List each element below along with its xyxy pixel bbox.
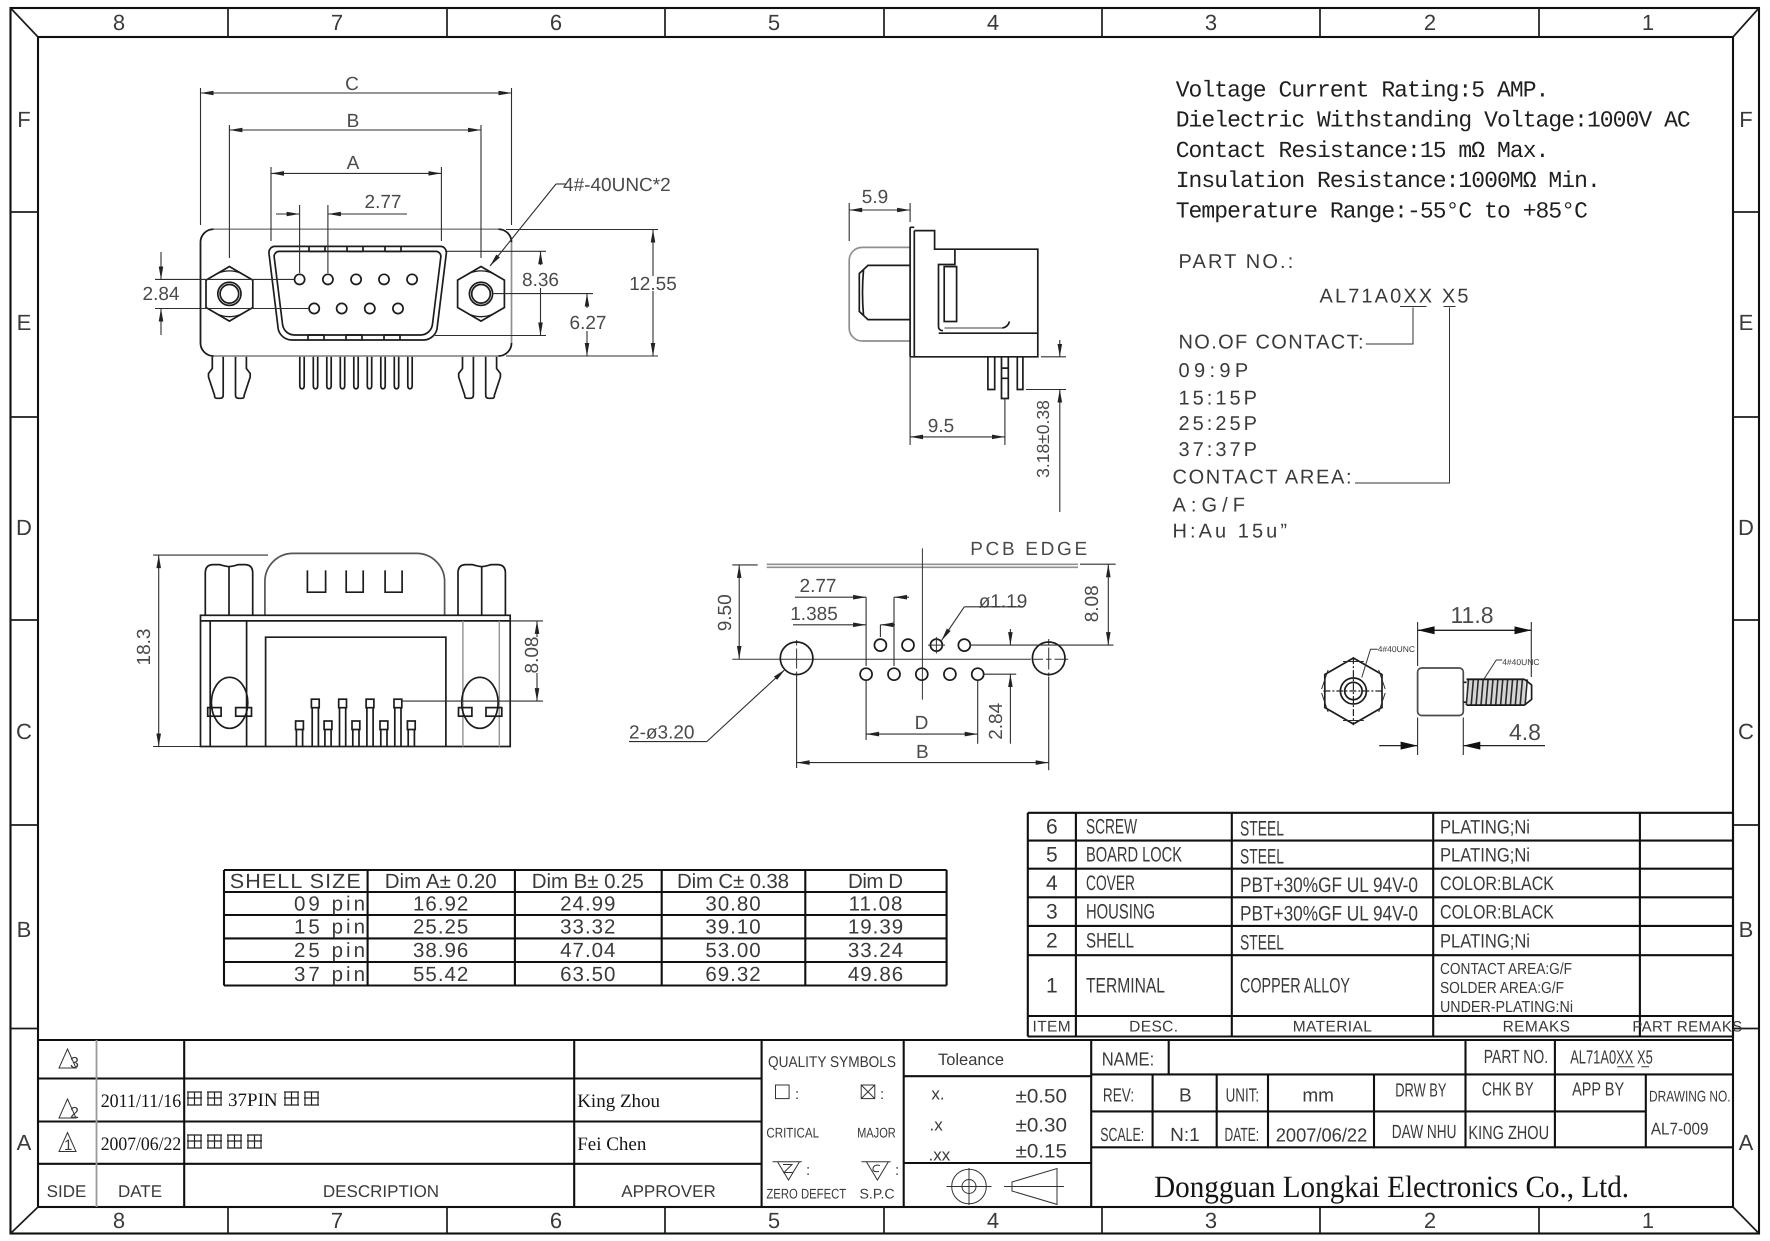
top view shell notches (307, 570, 402, 592)
dimension 2.77 (front view) (276, 192, 407, 273)
revision row 2011/11/16 (101, 1090, 661, 1112)
label 4#40UNC (screw) (1484, 657, 1539, 679)
pcb pin holes top row (874, 637, 970, 654)
svg-text:33.32: 33.32 (560, 916, 616, 939)
svg-text:.xx: .xx (929, 1146, 951, 1165)
label o1.19 with leader (942, 592, 1028, 641)
svg-text:PLATING;Ni: PLATING;Ni (1440, 845, 1530, 867)
svg-text::: : (895, 1162, 899, 1179)
svg-text:4: 4 (987, 1208, 999, 1233)
pcb mounting holes 2-o3.20 (780, 642, 1065, 675)
svg-text:63.50: 63.50 (560, 963, 616, 986)
dimension 12.55 (front view) (506, 230, 677, 357)
svg-text:2: 2 (70, 1105, 79, 1122)
svg-text:15:15P: 15:15P (1179, 388, 1258, 410)
svg-text:F: F (17, 107, 30, 132)
svg-text:±0.50: ±0.50 (1016, 1085, 1068, 1107)
side view D-shell (mating end) (849, 247, 910, 341)
svg-text:1: 1 (1642, 1208, 1654, 1233)
svg-text:SHELL SIZE: SHELL SIZE (230, 870, 362, 893)
svg-text:7: 7 (331, 10, 343, 35)
svg-text:ZERO DEFECT: ZERO DEFECT (766, 1186, 846, 1202)
svg-text:CONTACT AREA:G/F: CONTACT AREA:G/F (1440, 961, 1572, 978)
svg-text:2007/06/22: 2007/06/22 (1276, 1126, 1368, 1147)
top view hex nut left (205, 565, 252, 616)
svg-text:5.9: 5.9 (862, 187, 888, 208)
svg-text:DESC.: DESC. (1129, 1019, 1178, 1036)
svg-text:15 pin: 15 pin (294, 916, 366, 939)
svg-text:C: C (1738, 719, 1754, 744)
svg-text:MAJOR: MAJOR (857, 1125, 896, 1141)
svg-text:6.27: 6.27 (570, 313, 607, 334)
svg-text:AL71A0XX X5: AL71A0XX X5 (1570, 1048, 1653, 1069)
svg-text:2: 2 (1424, 10, 1436, 35)
svg-text:Dim B± 0.25: Dim B± 0.25 (532, 870, 645, 893)
svg-text:mm: mm (1302, 1086, 1334, 1107)
svg-text:C: C (16, 719, 32, 744)
svg-text:NAME:: NAME: (1102, 1050, 1155, 1071)
svg-text:.x: .x (930, 1116, 944, 1135)
svg-text:D: D (16, 515, 32, 540)
svg-text:CRITICAL: CRITICAL (766, 1125, 819, 1141)
svg-text:UNDER-PLATING:Ni: UNDER-PLATING:Ni (1440, 999, 1573, 1016)
svg-text:Contact Resistance:15 mΩ Max.: Contact Resistance:15 mΩ Max. (1176, 138, 1549, 164)
svg-text:53.00: 53.00 (705, 939, 761, 962)
svg-text:5: 5 (768, 10, 780, 35)
top view board lock slots (210, 621, 499, 747)
part number legend (1173, 251, 1469, 543)
top view pins far row (311, 699, 401, 746)
svg-text:8: 8 (113, 1208, 125, 1233)
dimension 2.84 (pcb) (984, 629, 1017, 744)
svg-text:D: D (915, 713, 929, 734)
spec text (1176, 78, 1690, 225)
svg-text:DAW NHU: DAW NHU (1392, 1122, 1457, 1143)
svg-text:S.P.C: S.P.C (860, 1186, 895, 1202)
svg-text:38.96: 38.96 (413, 939, 469, 962)
dimension 3.18±0.38 (side view) (1026, 340, 1066, 512)
side view flange plate (910, 227, 914, 356)
svg-text:37 pin: 37 pin (294, 963, 366, 986)
screw threads (1466, 679, 1531, 705)
svg-text:REV:: REV: (1103, 1086, 1134, 1107)
label 2-o3.20 with leader (629, 670, 785, 744)
bom table grid (1028, 813, 1733, 1037)
svg-text:CHK BY: CHK BY (1482, 1080, 1534, 1101)
pcb centerlines (732, 548, 1068, 699)
svg-text:PBT+30%GF UL 94V-0: PBT+30%GF UL 94V-0 (1240, 874, 1418, 897)
svg-text:A: A (17, 1130, 32, 1155)
svg-text:SCREW: SCREW (1086, 816, 1137, 839)
svg-text:25 pin: 25 pin (294, 939, 366, 962)
svg-text:A: A (347, 153, 360, 174)
svg-text:Dongguan Longkai Electronics C: Dongguan Longkai Electronics Co., Ltd. (1154, 1169, 1629, 1204)
svg-text:Toleance: Toleance (938, 1051, 1004, 1069)
front view pins bottom row (309, 303, 403, 313)
svg-text:Insulation Resistance:1000MΩ: Insulation Resistance:1000MΩ Min. (1176, 168, 1600, 194)
svg-text:6: 6 (1046, 816, 1058, 839)
svg-text:55.42: 55.42 (413, 963, 469, 986)
svg-text:2007/06/22: 2007/06/22 (101, 1134, 182, 1155)
svg-text:PLATING;Ni: PLATING;Ni (1440, 817, 1530, 839)
svg-text:4.8: 4.8 (1509, 719, 1541, 745)
svg-text:11.8: 11.8 (1450, 602, 1493, 628)
revision triangle 1 (59, 1133, 76, 1155)
svg-text:DATE: DATE (118, 1182, 162, 1201)
tolerance panel (904, 1051, 1091, 1165)
svg-text:4: 4 (987, 10, 999, 35)
svg-text:N:1: N:1 (1170, 1125, 1200, 1146)
pcb pin holes bottom row (860, 668, 984, 680)
dimension 1.385 (pcb) (790, 604, 895, 637)
svg-text:49.86: 49.86 (848, 963, 904, 986)
svg-text:8.08: 8.08 (522, 637, 543, 674)
front view solder pins (300, 357, 412, 389)
revision row 2007/06/22 (101, 1134, 647, 1155)
svg-text:4#-40UNC*2: 4#-40UNC*2 (563, 175, 671, 196)
title block outer lines (37, 1040, 1733, 1207)
top view shell behind (265, 553, 445, 615)
dimension 11.8 (screw) (1418, 602, 1532, 677)
svg-text:2.84: 2.84 (986, 702, 1007, 739)
dimension D (pcb) (866, 681, 978, 744)
dimension B (pcb) (797, 677, 1049, 771)
svg-text:12.55: 12.55 (629, 274, 677, 295)
svg-text:2.77: 2.77 (800, 576, 837, 597)
svg-text:COVER: COVER (1086, 872, 1135, 895)
svg-text:ITEM: ITEM (1032, 1019, 1071, 1036)
svg-text:SCALE:: SCALE: (1100, 1125, 1144, 1146)
svg-text:COPPER ALLOY: COPPER ALLOY (1240, 975, 1350, 998)
zone labels top (113, 10, 1654, 35)
revision triangle 2 (59, 1099, 79, 1122)
rev/unit row text (1103, 1080, 1731, 1107)
svg-text:9.50: 9.50 (715, 594, 736, 631)
svg-text:SOLDER AREA:G/F: SOLDER AREA:G/F (1440, 980, 1564, 997)
svg-text:DESCRIPTION: DESCRIPTION (323, 1182, 439, 1201)
bom table rows text (1046, 816, 1573, 1016)
svg-text:25.25: 25.25 (413, 916, 469, 939)
svg-text:PART REMAKS: PART REMAKS (1632, 1019, 1742, 1036)
name row (1091, 1040, 1733, 1074)
svg-text:COLOR:BLACK: COLOR:BLACK (1440, 902, 1554, 924)
svg-text:A: A (1739, 1130, 1754, 1155)
svg-text:SHELL: SHELL (1086, 930, 1134, 953)
pcb edge double line (767, 564, 1078, 567)
svg-text:DATE:: DATE: (1225, 1125, 1260, 1146)
projection symbol cone (1004, 1169, 1064, 1205)
company name (1154, 1169, 1629, 1204)
svg-text:Dim A± 0.20: Dim A± 0.20 (385, 870, 498, 893)
dimension B (front view) (229, 111, 481, 258)
svg-text:11.08: 11.08 (849, 893, 904, 916)
svg-text:Temperature Range:-55°C to +85: Temperature Range:-55°C to +85°C (1176, 198, 1587, 224)
svg-text:B: B (916, 742, 929, 763)
svg-text:±0.30: ±0.30 (1016, 1115, 1068, 1137)
svg-text:3.18±0.38: 3.18±0.38 (1033, 400, 1053, 478)
dimension 8.08 (top view) (402, 621, 543, 701)
svg-text:2: 2 (1046, 930, 1058, 953)
label 4#40UNC (nut) (1362, 644, 1415, 677)
svg-text:A:G/F: A:G/F (1173, 495, 1246, 517)
front view pins top row (295, 274, 418, 284)
svg-text:16.92: 16.92 (413, 893, 469, 916)
svg-text:PBT+30%GF UL 94V-0: PBT+30%GF UL 94V-0 (1240, 903, 1418, 926)
svg-text:1: 1 (1046, 975, 1058, 998)
svg-text:5: 5 (768, 1208, 780, 1233)
shell size table grid (224, 870, 947, 986)
svg-text:PART NO.: PART NO. (1484, 1047, 1548, 1068)
top view hex nut right (458, 565, 505, 616)
svg-text:B: B (347, 111, 360, 132)
svg-text:Dim C± 0.38: Dim C± 0.38 (677, 870, 790, 893)
svg-text:B: B (1739, 917, 1754, 942)
svg-text:APPROVER: APPROVER (621, 1182, 715, 1201)
top view pins near row (296, 721, 416, 747)
screw body side view (1418, 668, 1467, 716)
svg-text:7: 7 (331, 1208, 343, 1233)
svg-text:PART NO.:: PART NO.: (1179, 251, 1294, 273)
svg-text:BOARD LOCK: BOARD LOCK (1086, 844, 1182, 867)
svg-text:HOUSING: HOUSING (1086, 901, 1155, 924)
svg-text:8.08: 8.08 (1082, 585, 1103, 622)
svg-text:B: B (17, 917, 32, 942)
front view board lock tails (209, 357, 501, 399)
dimension 18.3 (top view) (134, 555, 268, 746)
svg-text:24.99: 24.99 (560, 893, 616, 916)
svg-text:E: E (1739, 310, 1754, 335)
front view hex nut left (206, 267, 253, 322)
svg-text:2: 2 (1424, 1208, 1436, 1233)
front view shell top notches (308, 246, 401, 340)
svg-text:AL7-009: AL7-009 (1651, 1120, 1709, 1139)
svg-text:D: D (1738, 515, 1754, 540)
svg-text:4#40UNC: 4#40UNC (1378, 644, 1415, 654)
svg-text:UNIT:: UNIT: (1226, 1086, 1260, 1107)
svg-text:18.3: 18.3 (134, 629, 155, 666)
svg-text:x.: x. (931, 1084, 944, 1103)
svg-text:4#40UNC: 4#40UNC (1502, 657, 1539, 667)
svg-text:KING ZHOU: KING ZHOU (1468, 1123, 1549, 1144)
svg-text:09:9P: 09:9P (1179, 360, 1249, 382)
svg-text:STEEL: STEEL (1240, 846, 1284, 869)
rev/unit row grid (1091, 1074, 1733, 1147)
revision header row (47, 1182, 716, 1201)
svg-text:9.5: 9.5 (928, 416, 954, 437)
shell size table text (230, 870, 904, 986)
svg-text:8.36: 8.36 (522, 270, 559, 291)
svg-text:AL71A0XX X5: AL71A0XX X5 (1320, 286, 1469, 308)
svg-text:REMAKS: REMAKS (1503, 1019, 1571, 1036)
svg-text:3: 3 (1046, 901, 1058, 924)
top view board lock holes (208, 677, 502, 728)
svg-text:Fei Chen: Fei Chen (577, 1134, 647, 1155)
projection symbol circle (947, 1168, 992, 1205)
svg-text:4: 4 (1046, 872, 1058, 895)
svg-text:TERMINAL: TERMINAL (1086, 975, 1165, 998)
svg-text:2-ø3.20: 2-ø3.20 (629, 723, 694, 744)
svg-text:3: 3 (1205, 10, 1217, 35)
svg-text:3: 3 (1205, 1208, 1217, 1233)
grey divider side/date (96, 1040, 98, 1207)
svg-text::: : (795, 1086, 799, 1103)
svg-text:PLATING;Ni: PLATING;Ni (1440, 931, 1530, 953)
svg-text:±0.15: ±0.15 (1016, 1141, 1068, 1163)
dimension 2.77 (pcb) (795, 576, 909, 666)
svg-text:19.39: 19.39 (848, 916, 904, 939)
svg-text:30.80: 30.80 (705, 893, 761, 916)
svg-text:PCB EDGE: PCB EDGE (970, 539, 1087, 560)
svg-text:37PIN: 37PIN (228, 1090, 278, 1111)
svg-text:MATERIAL: MATERIAL (1293, 1019, 1373, 1036)
side view pins (988, 357, 1023, 399)
svg-text:8: 8 (113, 10, 125, 35)
dimension A (front view) (271, 153, 441, 241)
svg-text:APP BY: APP BY (1572, 1080, 1624, 1101)
zone labels right (1738, 107, 1754, 1155)
svg-text:2.84: 2.84 (143, 284, 180, 305)
front view flange plate (201, 229, 512, 356)
front view hex nut right (458, 267, 505, 322)
dimension 9.50 (pcb) (715, 565, 758, 659)
dimension 9.5 (side view) (910, 357, 1005, 445)
svg-text:1.385: 1.385 (790, 604, 838, 625)
zone labels bottom (113, 1208, 1654, 1233)
svg-text:Dielectric Withstanding Voltag: Dielectric Withstanding Voltage:1000V AC (1176, 108, 1690, 134)
svg-text:B: B (1179, 1086, 1192, 1107)
svg-text:DRAWING NO.: DRAWING NO. (1649, 1088, 1731, 1105)
svg-text:6: 6 (550, 1208, 562, 1233)
PCB EDGE label (970, 539, 1087, 560)
screw hex nut face view (1322, 657, 1386, 725)
revision triangle 3 (59, 1049, 79, 1072)
svg-text:C: C (345, 74, 359, 95)
svg-text:2.77: 2.77 (365, 192, 402, 213)
svg-text:QUALITY SYMBOLS: QUALITY SYMBOLS (768, 1054, 896, 1071)
svg-text:Dim D: Dim D (848, 870, 904, 893)
svg-text:COLOR:BLACK: COLOR:BLACK (1440, 873, 1554, 895)
dimension 8.08 (pcb) (970, 564, 1116, 645)
dimension C (front view) (201, 74, 512, 225)
svg-text:69.32: 69.32 (705, 963, 761, 986)
dimension 2.84 (front view left) (143, 252, 309, 335)
label 4#-40UNC*2 with leader (490, 175, 671, 266)
svg-text:E: E (17, 310, 32, 335)
svg-text:Voltage Current Rating:5 AMP.: Voltage Current Rating:5 AMP. (1176, 78, 1549, 104)
svg-text:1: 1 (64, 1137, 72, 1154)
svg-text:H:Au 15u”: H:Au 15u” (1173, 521, 1288, 543)
svg-text:1: 1 (1642, 10, 1654, 35)
svg-text:37:37P: 37:37P (1179, 439, 1258, 461)
svg-text::: : (806, 1162, 810, 1179)
svg-text:NO.OF CONTACT:: NO.OF CONTACT: (1179, 332, 1364, 354)
svg-text:ø1.19: ø1.19 (979, 592, 1028, 613)
quality symbols panel (766, 1054, 899, 1202)
dimension 6.27 (front view) (570, 294, 607, 356)
svg-text:33.24: 33.24 (848, 939, 904, 962)
svg-text:39.10: 39.10 (705, 916, 761, 939)
zone labels left (16, 107, 32, 1155)
svg-text:F: F (1739, 107, 1752, 132)
svg-text:47.04: 47.04 (560, 939, 616, 962)
dimension 4.8 (screw) (1379, 718, 1545, 756)
dimension 5.9 (side view) (849, 187, 910, 241)
svg-text:King Zhou: King Zhou (577, 1091, 660, 1112)
dimension 8.36 (front view) (435, 251, 593, 335)
svg-text::: : (880, 1086, 884, 1103)
scale/date row text (1100, 1120, 1708, 1147)
side view housing body (910, 231, 1038, 357)
svg-text:25:25P: 25:25P (1179, 413, 1258, 435)
svg-text:CONTACT AREA:: CONTACT AREA: (1173, 467, 1352, 489)
svg-text:STEEL: STEEL (1240, 932, 1284, 955)
bom table header row (1032, 1019, 1742, 1036)
front view D-shell outer (269, 246, 447, 340)
svg-text:DRW BY: DRW BY (1395, 1081, 1447, 1102)
svg-text:5: 5 (1046, 844, 1058, 867)
svg-text:STEEL: STEEL (1240, 818, 1284, 841)
svg-text:09 pin: 09 pin (294, 893, 366, 916)
svg-text:6: 6 (550, 10, 562, 35)
svg-text:2011/11/16: 2011/11/16 (101, 1091, 182, 1112)
svg-text:3: 3 (70, 1055, 79, 1072)
svg-text:SIDE: SIDE (47, 1182, 87, 1201)
top view body rect (201, 615, 511, 746)
